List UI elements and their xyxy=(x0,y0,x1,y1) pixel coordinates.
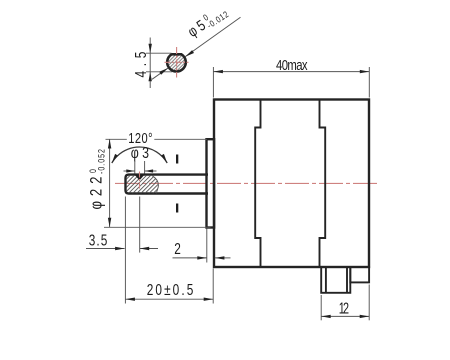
main horizontal centerline xyxy=(115,182,380,184)
dimension φ22 0/-0.052 xyxy=(87,139,210,227)
dimension 20±0.5 xyxy=(125,197,213,304)
svg-text:4.5: 4.5 xyxy=(131,51,149,77)
section plane mark lower xyxy=(176,204,178,213)
svg-text:2: 2 xyxy=(174,239,181,257)
connector side step xyxy=(350,267,369,282)
dimension 2 (boss height) xyxy=(173,229,231,263)
connector inner wall right xyxy=(346,267,348,293)
svg-text:40max: 40max xyxy=(276,57,308,74)
dimension 12 xyxy=(321,285,369,321)
svg-text:12: 12 xyxy=(339,299,349,316)
detail horizontal centerline xyxy=(165,61,189,63)
svg-text:3.5: 3.5 xyxy=(89,231,108,249)
connector housing main xyxy=(321,267,350,293)
dimple axis centerline xyxy=(139,172,141,189)
svg-text:φ22: φ22 xyxy=(87,177,106,210)
shaft outline xyxy=(126,175,209,194)
dimension 120 degrees cone angle xyxy=(112,130,167,163)
dimension 40max xyxy=(213,57,369,98)
pilot boss xyxy=(207,139,215,227)
dimension φ3 (dimple diameter) xyxy=(124,143,157,173)
motor body outline xyxy=(214,100,369,268)
section plane mark upper xyxy=(176,155,178,164)
broken-out section break line xyxy=(152,176,158,194)
detail section: shaft cross-section circle with flat xyxy=(167,54,186,71)
dimension 4.5 (shaft flat) xyxy=(131,38,172,89)
connector inner wall left xyxy=(325,267,327,293)
left end-cap contour line xyxy=(255,100,260,267)
detail vertical centerline xyxy=(176,47,178,78)
svg-text:-0.052: -0.052 xyxy=(97,149,107,174)
dimension φ5 0/-0.012 leader and label xyxy=(152,2,241,79)
set-screw dimple V xyxy=(135,175,145,181)
shaft broken-out section hatch xyxy=(127,176,159,194)
right end-cap contour line xyxy=(320,100,326,267)
dimension 3.5 xyxy=(86,197,158,253)
